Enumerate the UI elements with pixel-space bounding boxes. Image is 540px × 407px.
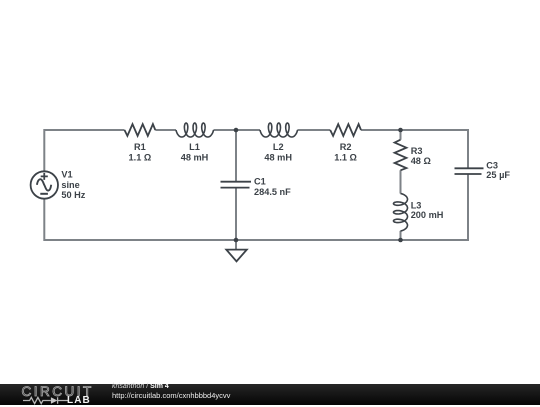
svg-text:48 Ω: 48 Ω — [411, 156, 431, 166]
svg-text:R3: R3 — [411, 146, 423, 156]
svg-text:48 mH: 48 mH — [181, 153, 209, 163]
svg-text:C3: C3 — [486, 160, 498, 170]
svg-text:48 mH: 48 mH — [264, 153, 292, 163]
svg-text:L2: L2 — [273, 142, 284, 152]
svg-text:200 mH: 200 mH — [411, 210, 444, 220]
svg-text:L1: L1 — [189, 142, 200, 152]
svg-text:C1: C1 — [254, 176, 266, 186]
svg-text:284.5 nF: 284.5 nF — [254, 187, 291, 197]
svg-text:L3: L3 — [411, 200, 422, 210]
svg-text:50 Hz: 50 Hz — [61, 190, 85, 200]
svg-text:1.1 Ω: 1.1 Ω — [334, 153, 357, 163]
svg-text:R1: R1 — [134, 142, 146, 152]
svg-text:V1: V1 — [61, 169, 72, 179]
svg-text:R2: R2 — [340, 142, 352, 152]
svg-text:sine: sine — [61, 180, 79, 190]
svg-text:1.1 Ω: 1.1 Ω — [129, 153, 152, 163]
svg-text:25 µF: 25 µF — [486, 170, 510, 180]
